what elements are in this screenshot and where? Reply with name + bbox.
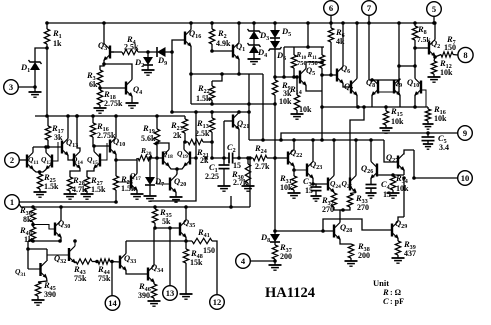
wire R36 R40 mid to Q30 base — [31, 222, 55, 229]
svg-text:2: 2 — [10, 155, 14, 165]
resistor R10 — [291, 47, 306, 68]
svg-text:8k: 8k — [23, 215, 32, 224]
wire Q12 collector — [45, 147, 47, 153]
svg-text:150: 150 — [444, 43, 456, 52]
resistor R14 — [289, 75, 312, 114]
resistor R26 — [113, 174, 136, 193]
transistor Q24 — [328, 176, 341, 193]
transistor Q22 — [288, 147, 302, 167]
wire bus1 y202 — [19, 200, 118, 204]
wire R32 R33 join — [334, 207, 350, 212]
svg-text:4.9k: 4.9k — [216, 39, 231, 48]
wire Q21 collector — [237, 110, 241, 114]
wire R24 to Q22 — [267, 156, 288, 160]
svg-text:150: 150 — [203, 246, 215, 255]
wire box R10 R11 top — [284, 45, 324, 49]
transistor Q7 — [344, 79, 358, 96]
ground R48 — [180, 263, 193, 299]
ground C3 — [310, 191, 321, 202]
svg-text:10k: 10k — [440, 68, 453, 77]
transistor Q2 — [429, 38, 440, 57]
wire Q11 collector — [32, 147, 34, 153]
wire R8 to Q2 base — [413, 46, 429, 50]
ground Q20 — [170, 197, 183, 202]
wire bias link y66 — [399, 64, 417, 68]
wire Q14 collector — [75, 114, 80, 151]
wire Q18 Q19 emitters — [169, 167, 184, 175]
wire vert x263 — [262, 74, 264, 140]
resistor R12 — [431, 58, 453, 77]
resistor R48 — [183, 241, 203, 267]
pin 4 — [236, 254, 275, 269]
svg-text:10k: 10k — [299, 105, 312, 114]
capacitor C5 — [422, 133, 450, 152]
zener D3 — [248, 21, 270, 42]
ground R38 — [345, 258, 358, 266]
resistor R33 — [347, 193, 369, 212]
resistor R22 — [196, 72, 224, 103]
wire Q30 collector — [60, 207, 62, 221]
svg-text:1.5k: 1.5k — [44, 182, 59, 191]
ground C5 — [423, 141, 433, 150]
resistor R27 — [84, 175, 106, 194]
wire box left edge — [283, 47, 285, 77]
wire Q17 collector — [116, 158, 137, 174]
wire rail y112 — [170, 110, 251, 114]
wire pin13 up — [169, 228, 171, 286]
resistor R7 — [441, 34, 456, 57]
wire rail y241 — [28, 239, 62, 243]
wire D9 to Q16 base — [165, 40, 184, 112]
wire Q30 emitter — [60, 238, 62, 242]
wire rail y104 — [191, 102, 275, 106]
wire R35 bottom — [153, 223, 180, 230]
wire vert x249 — [248, 74, 250, 140]
resistor R35 — [152, 207, 171, 226]
wire Q21 emitter — [237, 130, 241, 160]
wire Q15 collector — [92, 144, 96, 151]
wire Q28 collector — [340, 210, 343, 223]
ground R27 — [81, 191, 94, 199]
wire Q5 collector — [306, 62, 322, 69]
wire Q21 base — [222, 121, 233, 160]
pin 14 — [105, 296, 120, 311]
wire Q31 emitter — [38, 278, 47, 282]
transistor Q8 — [366, 77, 378, 96]
wire Q4 collector — [131, 70, 133, 80]
wire Q16 collector — [189, 21, 193, 29]
wire Q13 collector — [67, 116, 69, 139]
wire Q26 emitter — [370, 179, 372, 185]
svg-text:200: 200 — [280, 252, 292, 261]
transistor Q1 — [233, 41, 245, 60]
svg-text:2.5k: 2.5k — [124, 43, 139, 52]
pin 8 — [453, 47, 473, 62]
wire Q2 collector — [433, 21, 437, 39]
transistor Q28 — [334, 222, 352, 240]
pin 2 — [5, 153, 27, 168]
resistor R38 — [348, 241, 370, 260]
svg-text:2k: 2k — [173, 131, 182, 140]
diode D8 — [260, 231, 280, 244]
ground D1 — [29, 87, 42, 97]
resistor R19 — [141, 116, 160, 145]
wire Q34 emitter — [153, 283, 155, 285]
ground R18a — [94, 105, 107, 113]
svg-text:75k: 75k — [74, 274, 87, 283]
ground R15 — [380, 125, 393, 133]
wire Q25 collector — [354, 138, 358, 175]
wire Q14 emitter — [70, 169, 80, 178]
wire Q1 emitter — [237, 60, 241, 76]
wire Q25 base feed — [350, 107, 364, 178]
wire box right edge — [321, 47, 323, 55]
ground C4 — [365, 188, 376, 198]
ground R30 — [242, 183, 255, 191]
wire Q22 emitter — [292, 167, 296, 177]
svg-text:15k: 15k — [190, 258, 203, 267]
svg-text:10k: 10k — [434, 114, 447, 123]
wire Q32 base — [47, 254, 69, 256]
wire Q31 collector — [46, 260, 49, 262]
wire pin9 line — [281, 131, 458, 140]
pin 3 — [4, 80, 37, 95]
wire R3 to Q4 base — [100, 87, 126, 89]
wire top supply bus — [47, 22, 435, 24]
svg-text:HA1124: HA1124 — [265, 285, 315, 301]
diode D2 — [134, 52, 153, 69]
wire Q17 emitter — [136, 191, 138, 195]
label C pF — [383, 296, 404, 306]
ground R28 — [64, 191, 77, 199]
wire Q9 emitter — [399, 96, 401, 108]
svg-text:270: 270 — [322, 205, 334, 214]
svg-text:437: 437 — [404, 249, 416, 258]
transistor Q26 — [361, 162, 377, 179]
wire Q16 emitter — [190, 47, 192, 75]
wire Q25 emitter — [350, 193, 356, 194]
resistor R43 — [73, 259, 92, 283]
wire Q27 emitter — [403, 170, 405, 176]
wire Q8 emitter — [371, 96, 373, 108]
ground R12 — [428, 74, 441, 82]
wire emitter rail y107 — [320, 96, 428, 109]
wire R19 bottom — [155, 145, 159, 160]
diode D7 — [145, 156, 164, 188]
transistor Q12 — [41, 153, 52, 170]
wire Q32 emitter — [75, 262, 76, 264]
svg-text:75k: 75k — [98, 274, 111, 283]
transistor Q25 — [342, 176, 357, 193]
svg-text:10k: 10k — [279, 97, 292, 106]
resistor R36 — [19, 205, 36, 224]
wire rail y241 — [126, 239, 192, 243]
zener D1 — [20, 57, 42, 87]
svg-text:9: 9 — [463, 128, 467, 138]
resistor R44 — [97, 259, 111, 283]
wire Q16em down — [189, 72, 193, 104]
transistor Q33 — [120, 253, 136, 271]
pin 9 — [458, 126, 473, 141]
label Unit — [373, 278, 389, 288]
wire Q22 to Q23 base — [294, 169, 307, 171]
wire Q32 collector — [73, 239, 77, 246]
wire D6 down to R9 — [273, 49, 277, 80]
wire Q27 collector — [404, 150, 414, 155]
svg-text:2.25: 2.25 — [205, 172, 219, 181]
wire Q24 emitter — [333, 192, 335, 195]
wire bus2 y207 — [19, 204, 250, 209]
transistor Q10b — [110, 136, 125, 155]
wire pin7 rail — [369, 23, 400, 80]
wire Q6 base rail — [320, 73, 337, 77]
capacitor C4 — [366, 179, 392, 199]
wire Q2 emitter — [433, 55, 441, 62]
svg-text:8: 8 — [463, 50, 467, 60]
wire Q20 base — [157, 158, 170, 184]
pin 12 — [210, 295, 225, 310]
svg-text:15: 15 — [383, 190, 391, 199]
resistor R6 — [328, 23, 345, 46]
transistor Q31 — [15, 261, 47, 278]
ground R34 — [387, 190, 400, 198]
transistor Q13 — [62, 137, 78, 156]
resistor R13 — [195, 110, 215, 138]
ground D2 — [142, 65, 155, 75]
resistor R9 — [272, 80, 292, 106]
wire signal y158 mid — [204, 156, 253, 160]
wire Q10 emitter — [414, 96, 416, 108]
wire Q12 base stub — [52, 142, 58, 161]
svg-text:: pF: : pF — [390, 297, 404, 306]
resistor R16 — [425, 104, 447, 123]
wire Q28 base — [275, 230, 334, 232]
zener D4 — [248, 38, 268, 59]
wire D8 feed — [273, 104, 277, 233]
transistor Q23 — [307, 159, 322, 179]
diode D9 — [157, 47, 167, 67]
ground R37 — [269, 265, 282, 270]
wire Q1 collector — [237, 21, 241, 42]
wire Q23 emitter — [311, 179, 328, 186]
wire R13 bottom — [210, 132, 214, 160]
svg-text:10k: 10k — [391, 117, 404, 126]
transistor Q6 — [337, 63, 350, 84]
wire bus2 end — [248, 156, 252, 207]
wire Q6 collector — [341, 21, 345, 66]
diode D5 — [270, 21, 291, 38]
wire Q33 collector — [125, 241, 127, 254]
transistor Q16 — [185, 28, 201, 47]
wire Q17 base — [116, 181, 131, 183]
wire R22 bottom — [210, 100, 214, 106]
wire Q18 collector — [155, 141, 169, 149]
svg-text:1: 1 — [10, 197, 14, 207]
ground D7 — [144, 185, 157, 201]
svg-text:5k: 5k — [162, 217, 171, 226]
svg-text:10k: 10k — [396, 184, 409, 193]
wire Q3 collector — [102, 21, 106, 43]
resistor R3 — [86, 70, 103, 90]
wire Q9 collector — [399, 79, 401, 81]
wire Q29 emitter — [397, 239, 399, 242]
ground R45 — [32, 296, 45, 305]
wire pin10 vert — [402, 150, 416, 217]
wire R2 to Q1 base — [210, 44, 233, 53]
wire R41 to pin12 — [212, 241, 217, 295]
ground C1 — [218, 169, 231, 192]
resistor R15 — [383, 106, 404, 126]
resistor R21 — [188, 139, 209, 165]
resistor R39 — [395, 239, 416, 258]
label HA1124 — [265, 285, 315, 301]
ground R39 — [392, 255, 405, 263]
resistor R16b — [90, 116, 116, 140]
resistor R18a — [97, 89, 123, 108]
wire Q11 Q12 emitters — [33, 170, 46, 175]
svg-text:1.5k: 1.5k — [91, 185, 106, 194]
ground R46 — [148, 298, 161, 306]
pin 10 — [414, 171, 472, 186]
wire R9 bottom — [273, 95, 277, 106]
svg-text:3.4: 3.4 — [439, 143, 449, 152]
resistor R20 — [138, 146, 152, 161]
svg-text:390: 390 — [138, 291, 150, 300]
wire Q19 collector — [184, 142, 188, 150]
ground R16 — [422, 121, 433, 129]
wire Q7 collector — [355, 21, 359, 78]
wire R21 to R13 — [203, 140, 214, 144]
wire Q27 base — [384, 140, 398, 162]
wire Q10 collector — [414, 40, 416, 79]
ground D3 D4 — [248, 52, 261, 64]
svg-text:270: 270 — [357, 203, 369, 212]
svg-text:1.5k: 1.5k — [196, 94, 211, 103]
svg-text:3: 3 — [9, 82, 13, 92]
wire Q20 collector — [176, 174, 177, 176]
svg-text:5: 5 — [432, 4, 436, 14]
svg-text:13: 13 — [166, 288, 175, 298]
resistor R41 — [192, 227, 215, 255]
resistor R30 — [231, 156, 251, 187]
pin 7 — [362, 1, 377, 25]
wire bias vert x399 — [397, 21, 401, 92]
wire R10 to Q5 base — [293, 68, 295, 77]
wire Q11 Q12 collectors — [33, 145, 62, 149]
transistor Q5 — [300, 65, 315, 86]
pin 1 — [5, 195, 20, 210]
transistor Q18 — [162, 149, 173, 167]
transistor Q34 — [148, 262, 163, 283]
wire R11 down to bus — [320, 60, 324, 142]
transistor Q4 — [126, 80, 142, 97]
wire Q35 collector — [185, 207, 187, 221]
wire Q34 collector — [153, 228, 155, 266]
wire y175 emitter — [377, 173, 404, 177]
wire vert x28 — [26, 241, 30, 269]
transistor Q3 — [98, 40, 110, 61]
svg-text:2.75k: 2.75k — [104, 99, 123, 108]
wire box Q18 area — [150, 112, 198, 201]
wire Q10b emitter — [114, 155, 118, 177]
resistor R40 — [19, 225, 36, 244]
resistor R1 — [44, 21, 62, 50]
wire R37 bottom — [273, 259, 277, 265]
wire stub y249 — [28, 248, 47, 250]
wire Q4 emitter — [131, 97, 133, 104]
wire Q33 emitter — [126, 271, 148, 275]
wire pin6bus to box — [306, 21, 310, 47]
pin 13 — [163, 286, 178, 301]
transistor Q30 — [55, 218, 70, 238]
svg-text:5.6k: 5.6k — [141, 134, 156, 143]
wire stub x231 — [229, 196, 233, 209]
wire Q5 emitter — [306, 86, 322, 92]
wire R43 R44 — [92, 260, 99, 264]
wire emitter rail y74 — [191, 73, 263, 75]
wire Q19 base stub — [190, 157, 196, 159]
resistor R8 — [412, 21, 431, 44]
resistor R4 — [110, 34, 139, 55]
capacitor C1 — [205, 158, 230, 181]
label R ohm — [382, 287, 402, 297]
wire Q24 collector — [333, 140, 335, 176]
svg-text:: Ω: : Ω — [390, 288, 402, 297]
svg-text:6: 6 — [329, 3, 333, 13]
wire R16b to Q10b base — [93, 137, 110, 146]
wire R4 to D2 D9 — [138, 50, 157, 54]
transistor Q11 — [27, 153, 39, 170]
svg-text:2.5k: 2.5k — [195, 129, 210, 138]
resistor R24 — [253, 143, 270, 171]
wire signal y158 — [152, 157, 163, 159]
wire Q22 collector — [293, 140, 295, 150]
transistor Q32 — [54, 246, 76, 265]
ground R25 — [34, 189, 47, 197]
wire Q20 emitter — [175, 193, 177, 198]
wire Q3 base — [110, 51, 114, 53]
resistor R37 — [272, 242, 292, 261]
svg-text:12: 12 — [213, 297, 222, 307]
wire Q8 collector — [370, 78, 374, 82]
wire R5 to Q6 base — [329, 42, 333, 77]
pin 5 — [427, 2, 442, 25]
resistor R46 — [138, 281, 157, 300]
resistor R11 — [307, 51, 325, 68]
resistor R45 — [35, 280, 56, 299]
wire Q10b collector — [115, 116, 117, 138]
svg-text:C: C — [383, 296, 389, 306]
wire pin14 up — [111, 262, 113, 296]
svg-text:390: 390 — [44, 290, 56, 299]
wire R23 bottom — [183, 133, 187, 144]
resistor R31 — [279, 173, 297, 192]
resistor R32 — [321, 193, 337, 214]
wire Q15 base stub — [100, 143, 107, 160]
ground R14 — [291, 110, 304, 119]
svg-text:14: 14 — [108, 298, 117, 308]
transistor Q20 — [170, 176, 186, 193]
wire Q3 emitter node — [100, 61, 132, 71]
wire R26 to bus1 — [115, 190, 117, 202]
wire Q10 base stub — [421, 90, 426, 107]
transistor Q15 — [87, 152, 100, 169]
wire Q13 emitter — [68, 156, 74, 161]
wire bus y116 — [35, 114, 185, 118]
ground R31 — [288, 190, 301, 198]
resistor R17 — [45, 116, 63, 142]
svg-text:2.7k: 2.7k — [255, 162, 270, 171]
